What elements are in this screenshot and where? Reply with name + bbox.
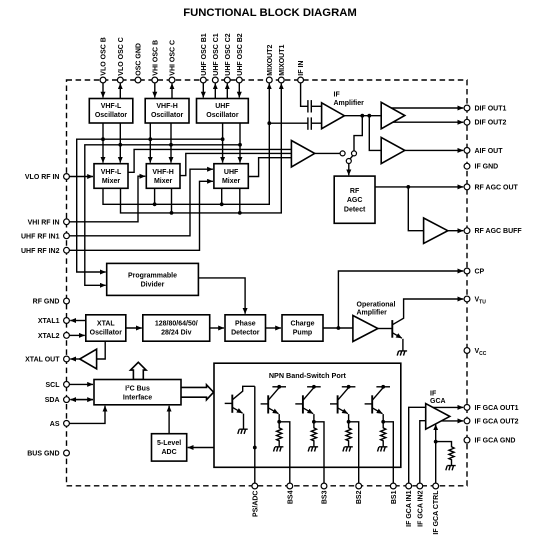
wire UHF OSC B2 to UHF oscillator	[238, 83, 240, 98]
switch contact a (from selector)	[340, 151, 345, 156]
wire BS3 emitter to BS3 pin	[314, 422, 324, 483]
pin MIXOUT2	[266, 44, 273, 82]
svg-text:Oscillator: Oscillator	[90, 329, 123, 336]
wire UHF oscillator output 2 to UHF mixer	[239, 123, 241, 163]
node IF GCA ctrl branch	[434, 440, 438, 444]
node MIXOUT2 column to coupling cap	[267, 121, 271, 125]
svg-text:Oscillator: Oscillator	[151, 112, 184, 119]
svg-text:Mixer: Mixer	[222, 178, 241, 185]
svg-text:MIXOUT1: MIXOUT1	[279, 44, 286, 75]
wire VHI RF IN to VHF-H mixer	[70, 176, 146, 222]
wire VHF-H mixer output to IF selector amp	[180, 153, 291, 175]
svg-text:IF GCA CTRL: IF GCA CTRL	[433, 490, 440, 535]
RF AGC detect block	[334, 176, 375, 223]
pin MIXOUT1	[278, 44, 285, 82]
wire XTAL oscillator to XTAL1	[70, 320, 86, 322]
wire SDA to I2C interface (bidirectional)	[70, 399, 93, 401]
node bus A / VHF-H osc1	[148, 137, 152, 141]
pin UHF OSC B1	[200, 33, 207, 83]
pin IF IN	[298, 61, 305, 83]
svg-text:UHF OSC C1: UHF OSC C1	[213, 33, 220, 76]
wire UHF oscillator to UHF OSC C2	[226, 83, 228, 98]
svg-text:Charge: Charge	[290, 320, 314, 327]
svg-text:IF GND: IF GND	[475, 164, 499, 171]
wire divider to phase detector	[210, 327, 224, 329]
transistor Q5 (BS2)	[330, 385, 355, 447]
wire UHF mixer output to IF selector amp	[248, 158, 291, 177]
svg-text:GCA: GCA	[430, 398, 446, 405]
128/80/64/50/28/24 divider block	[143, 315, 210, 341]
svg-text:XTAL1: XTAL1	[38, 318, 60, 325]
svg-text:BS2: BS2	[356, 490, 363, 504]
wire PS/ADC node to 5-level ADC	[188, 447, 255, 449]
svg-text:VHI OSC C: VHI OSC C	[170, 40, 177, 76]
svg-text:Detector: Detector	[231, 329, 260, 336]
ground (BS2 resistor)	[343, 447, 353, 452]
wire op-amp to transistor Q1 base	[378, 328, 392, 330]
wire IF amp out to AIF amp	[369, 116, 381, 151]
svg-text:RF AGC BUFF: RF AGC BUFF	[475, 228, 523, 235]
resistor R1 (IF GCA ctrl)	[449, 447, 454, 465]
wire UHF oscillator to UHF OSC C1	[214, 83, 216, 98]
ground (BS3 resistor)	[308, 447, 318, 452]
svg-text:AS: AS	[50, 421, 60, 428]
pin IF GCA IN2	[417, 483, 424, 527]
bus arrow I2C up	[131, 362, 147, 379]
node bus B / VHF-H osc2	[169, 143, 173, 147]
svg-text:IF: IF	[334, 91, 341, 98]
pin RF AGC OUT	[464, 184, 518, 191]
wire 5-level ADC to I2C interface	[168, 406, 170, 434]
svg-text:UHF OSC B1: UHF OSC B1	[201, 33, 208, 76]
op-amp IF selector amplifier	[291, 141, 314, 168]
pin BS1	[390, 483, 397, 504]
svg-text:RF GND: RF GND	[33, 299, 60, 306]
svg-text:MIXOUT2: MIXOUT2	[267, 44, 274, 75]
svg-text:Operational: Operational	[357, 301, 396, 308]
node VHF-H mixer out2 on bus 2	[170, 211, 174, 215]
transistor Q1 (VTU follower)	[392, 299, 463, 351]
pin VLO OSC B	[100, 37, 107, 83]
op-amp DIF output amplifier	[381, 102, 405, 129]
svg-text:SDA: SDA	[45, 397, 60, 404]
svg-text:VHF-L: VHF-L	[101, 169, 122, 176]
svg-text:IF GCA OUT1: IF GCA OUT1	[475, 405, 519, 412]
5-level ADC block	[152, 434, 187, 461]
wire charge pump to op-amp	[323, 327, 353, 329]
svg-text:BS4: BS4	[287, 490, 294, 504]
svg-text:VHF-L: VHF-L	[101, 103, 122, 110]
wire IF amp out to AGC switch contact	[354, 116, 362, 151]
svg-text:DIF OUT2: DIF OUT2	[475, 120, 507, 127]
svg-text:XTAL2: XTAL2	[38, 333, 60, 340]
svg-text:VLO RF IN: VLO RF IN	[25, 174, 60, 181]
wire VHF-L oscillator output 1 to VHF-L mixer	[102, 123, 104, 163]
pin BUS GND	[27, 450, 69, 457]
wire UHF RF IN1 to UHF mixer	[70, 169, 213, 236]
ground (BS4 resistor)	[274, 447, 284, 452]
svg-text:VHI RF IN: VHI RF IN	[28, 219, 60, 226]
pin IF GND	[464, 163, 498, 170]
wire VHF-L mixer output to IF selector amp	[128, 149, 291, 172]
pin SCL	[46, 382, 70, 389]
capacitor C1 (IF amp upper input)	[308, 100, 322, 112]
svg-text:IF GCA IN2: IF GCA IN2	[417, 490, 424, 526]
svg-text:28/24 Div: 28/24 Div	[161, 329, 191, 336]
svg-text:BS1: BS1	[391, 490, 398, 504]
wire CP branch to CP pin	[338, 271, 463, 328]
node UHF mixer out2 on bus 2	[238, 211, 242, 215]
pin BS3	[321, 483, 328, 504]
op-amp IF amplifier	[322, 103, 345, 129]
wire IF amplifier output to DIF amp	[344, 115, 381, 117]
pin RF GND	[33, 298, 70, 305]
pin CP	[464, 268, 484, 275]
switch contact b (from IF amp)	[352, 151, 357, 156]
pin RF AGC BUFF	[464, 228, 522, 235]
ground (BS1 resistor)	[378, 447, 388, 452]
svg-text:AGC: AGC	[347, 197, 363, 204]
wire IF selector amp to AGC switch contact	[315, 152, 340, 154]
wire VHF-H mixer out2	[171, 188, 173, 213]
wire UHF mixer out1	[221, 188, 223, 204]
pin XTAL1	[38, 318, 70, 325]
pin VHI OSC B	[152, 40, 159, 83]
node VHF-H mixer out1 on bus 1	[153, 202, 157, 206]
svg-text:Phase: Phase	[235, 320, 256, 327]
pin BS4	[287, 483, 294, 504]
svg-text:NPN Band-Switch Port: NPN Band-Switch Port	[269, 371, 347, 380]
svg-text:XTAL: XTAL	[97, 320, 115, 327]
svg-text:RF: RF	[350, 188, 360, 195]
svg-text:Amplifier: Amplifier	[357, 309, 388, 316]
pin IF GCA IN1	[406, 483, 413, 527]
svg-text:IF IN: IF IN	[298, 61, 305, 76]
node UHF mixer out1 on bus 1	[220, 202, 224, 206]
wire BS2 emitter to BS2 pin	[349, 422, 359, 483]
svg-text:VHF-H: VHF-H	[156, 103, 177, 110]
node bus B / VHF-L osc2	[118, 143, 122, 147]
wire VHF-L oscillator to VLO OSC C	[119, 83, 121, 98]
wire BS4 emitter to BS4 pin	[279, 422, 290, 483]
op-amp operational amplifier	[353, 316, 378, 342]
wire Q2 collector to PS/ADC pin	[254, 386, 256, 483]
switch blade	[350, 155, 353, 159]
svg-text:XTAL OUT: XTAL OUT	[25, 357, 60, 364]
wire VHF-H oscillator output 1 to VHF-H mixer	[149, 123, 151, 163]
wire mixer bus 2 to MIXOUT1	[121, 83, 282, 213]
wire VHF-H oscillator to VHI OSC C	[171, 83, 173, 98]
svg-text:VHI OSC B: VHI OSC B	[152, 40, 159, 76]
node RF AGC branch	[406, 185, 410, 189]
svg-text:UHF: UHF	[224, 169, 239, 176]
svg-text:Oscillator: Oscillator	[95, 112, 128, 119]
ground (Q2 emitter)	[238, 429, 248, 434]
svg-text:RF AGC OUT: RF AGC OUT	[475, 184, 519, 191]
switch pole	[346, 159, 351, 164]
pin VCC	[464, 348, 487, 357]
node IF amp out 1	[360, 114, 364, 118]
programmable divider block	[107, 263, 199, 295]
VHF-H mixer block	[146, 164, 180, 189]
op-amp RF AGC buffer	[424, 218, 448, 243]
wire mixer bus 1 to MIXOUT2	[103, 83, 269, 204]
wire oscillator bus B to programmable divider	[85, 145, 240, 285]
svg-text:UHF: UHF	[215, 103, 230, 110]
wire UHF RF IN2 to UHF mixer	[70, 181, 213, 250]
phase detector block	[225, 315, 266, 341]
svg-text:UHF OSC C2: UHF OSC C2	[225, 33, 232, 76]
svg-text:Interface: Interface	[123, 394, 152, 401]
node bus B / UHF osc2	[238, 143, 242, 147]
svg-text:IF GCA GND: IF GCA GND	[475, 438, 516, 445]
pin VHI RF IN	[28, 219, 70, 226]
node IF amp out 2	[367, 114, 371, 118]
wire XTAL2 to XTAL oscillator	[70, 334, 85, 336]
pin IF GCA OUT2	[464, 418, 519, 425]
NPN band-switch port block	[214, 363, 401, 467]
IC boundary (dashed)	[67, 80, 468, 486]
wire XTAL OUT buffer to XTAL OUT	[70, 358, 80, 360]
wire VHF-L oscillator output 2 to VHF-L mixer	[119, 123, 121, 163]
svg-text:UHF RF IN1: UHF RF IN1	[21, 233, 60, 240]
pin AIF OUT	[464, 148, 503, 155]
svg-text:AIF OUT: AIF OUT	[475, 148, 504, 155]
wire IF GCA IN1 to IF GCA amp	[409, 407, 426, 483]
VHF-L oscillator block	[89, 99, 133, 124]
svg-text:SCL: SCL	[46, 382, 61, 389]
wire IF GCA amp to IF GCA OUT2	[441, 420, 463, 422]
pin PS/ADC	[252, 483, 259, 517]
svg-text:OSC GND: OSC GND	[136, 43, 143, 76]
pin OSC GND	[135, 43, 142, 83]
wire XTAL oscillator to divider chain	[126, 327, 142, 329]
wire IF GCA amp to IF GCA OUT1	[433, 406, 463, 408]
svg-text:Pump: Pump	[293, 329, 312, 336]
pin UHF OSC C1	[212, 33, 219, 83]
pin UHF OSC B2	[236, 33, 243, 83]
wire phase detector to charge pump	[266, 327, 282, 329]
pin VLO RF IN	[25, 174, 70, 181]
pin IF GCA OUT1	[464, 405, 519, 412]
svg-text:BS3: BS3	[322, 490, 329, 504]
wire buffer amp to RF AGC BUFF	[448, 230, 464, 232]
svg-text:I2C Bus: I2C Bus	[125, 384, 150, 393]
VHF-H oscillator block	[145, 99, 189, 124]
svg-text:Mixer: Mixer	[154, 178, 173, 185]
wire oscillator bus A to programmable divider	[77, 139, 223, 272]
node PS/ADC to ADC feed	[253, 446, 257, 450]
wire VLO OSC B to VHF-L oscillator	[102, 83, 104, 98]
pin UHF RF IN2	[21, 247, 69, 254]
svg-text:Programmable: Programmable	[128, 272, 177, 279]
svg-text:UHF OSC B2: UHF OSC B2	[237, 33, 244, 76]
wire UHF oscillator output 1 to UHF mixer	[222, 123, 224, 163]
XTAL oscillator block	[86, 315, 126, 341]
op-amp XTAL OUT buffer	[80, 349, 97, 369]
svg-text:IF GCA IN1: IF GCA IN1	[406, 490, 413, 526]
UHF mixer block	[214, 164, 248, 189]
wire BS1 emitter to BS1 pin	[383, 422, 393, 483]
capacitor C2 (IF amp lower input)	[308, 117, 322, 129]
svg-text:CP: CP	[475, 269, 485, 276]
wire RF AGC branch to buffer amp	[408, 187, 423, 231]
svg-text:VLO OSC C: VLO OSC C	[118, 37, 125, 76]
wire DIF amp to DIF OUT1	[391, 107, 463, 109]
pin AS	[50, 421, 70, 428]
pin XTAL2	[38, 333, 70, 340]
transistor Q4 (BS3)	[295, 385, 320, 447]
wire XTAL oscillator to XTAL OUT buffer	[97, 341, 106, 359]
transistor Q6 (BS1)	[365, 385, 390, 447]
svg-text:128/80/64/50/: 128/80/64/50/	[155, 320, 198, 327]
wire SCL to I2C interface	[70, 383, 94, 385]
svg-text:Detect: Detect	[344, 206, 366, 213]
wire DIF amp to DIF OUT2	[393, 121, 463, 123]
wire MIXOUT2 column to coupling cap C2	[269, 122, 307, 124]
pin XTAL OUT	[25, 356, 69, 363]
svg-text:IF GCA OUT2: IF GCA OUT2	[475, 418, 519, 425]
VHF-L mixer block	[94, 164, 128, 189]
svg-text:Mixer: Mixer	[102, 178, 121, 185]
svg-text:DIF OUT1: DIF OUT1	[475, 106, 507, 113]
svg-text:IF: IF	[430, 391, 437, 398]
wire VLO RF IN to VHF-L mixer	[70, 176, 94, 178]
svg-text:VHF-H: VHF-H	[152, 169, 173, 176]
wire IF GCA CTRL to IF GCA amp	[435, 424, 437, 483]
wire UHF mixer out2	[239, 188, 241, 213]
wire AS to I2C interface	[70, 406, 106, 424]
charge pump block	[282, 315, 323, 341]
wire ctrl branch to resistor R1	[436, 442, 452, 448]
op-amp IF GCA	[426, 404, 450, 430]
op-amp AIF output amplifier	[381, 137, 405, 163]
pin IF GCA CTRL	[433, 483, 440, 534]
svg-text:PS/ADC: PS/ADC	[252, 491, 259, 517]
ground (Q1 emitter)	[397, 351, 407, 356]
wire RF AGC detect to RF AGC OUT	[375, 186, 463, 188]
node CP branch	[337, 326, 341, 330]
bus arrow I2C to band-switch port	[181, 385, 214, 400]
transistor Q2 (PS/ADC driver)	[225, 386, 255, 429]
svg-text:5-Level: 5-Level	[157, 440, 181, 447]
transistor Q3 (BS4)	[261, 385, 286, 447]
node bus A / UHF osc1	[221, 137, 225, 141]
svg-text:ADC: ADC	[162, 449, 177, 456]
pin VTU	[464, 296, 486, 305]
pin SDA	[45, 397, 70, 404]
wire VHF-H oscillator output 2 to VHF-H mixer	[170, 123, 172, 163]
pin IF GCA GND	[464, 437, 515, 444]
svg-text:VLO OSC B: VLO OSC B	[101, 37, 108, 76]
wire UHF OSC B1 to UHF oscillator	[202, 83, 204, 98]
pin VLO OSC C	[117, 37, 124, 83]
ground (R1)	[446, 466, 456, 471]
svg-text:Amplifier: Amplifier	[334, 100, 365, 107]
wire AIF amp to AIF OUT	[405, 149, 464, 151]
wire IF IN to coupling cap C1	[301, 83, 308, 106]
pin DIF OUT1	[464, 105, 506, 112]
pin UHF OSC C2	[224, 33, 231, 83]
svg-text:Oscillator: Oscillator	[206, 112, 239, 119]
I2C bus interface block	[94, 380, 181, 405]
pin UHF RF IN1	[21, 233, 69, 240]
svg-text:Divider: Divider	[141, 281, 165, 288]
svg-text:UHF RF IN2: UHF RF IN2	[21, 248, 60, 255]
pin VHI OSC C	[169, 40, 176, 83]
svg-text:FUNCTIONAL BLOCK DIAGRAM: FUNCTIONAL BLOCK DIAGRAM	[183, 7, 357, 19]
wire VHI OSC B to VHF-H oscillator	[154, 83, 156, 98]
pin DIF OUT2	[464, 119, 506, 126]
wire switch pole to RF AGC detect	[348, 164, 350, 176]
UHF oscillator block	[197, 99, 249, 124]
svg-text:BUS GND: BUS GND	[27, 451, 59, 458]
wire VHF-H mixer out1	[154, 188, 156, 204]
pin BS2	[356, 483, 363, 504]
node bus A / VHF-L osc1	[101, 137, 105, 141]
wire programmable divider to phase detector	[198, 278, 245, 314]
wire IF GCA IN2 to IF GCA amp	[420, 421, 426, 483]
